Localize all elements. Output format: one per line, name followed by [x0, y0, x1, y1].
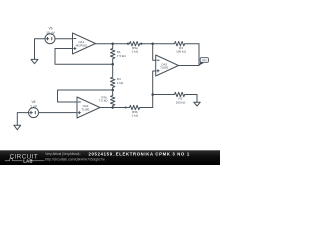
- ground: [14, 125, 21, 129]
- resistor R5a: [113, 42, 153, 46]
- svg-text:MCP601: MCP601: [76, 44, 88, 48]
- label OA2 TL081: [81, 104, 90, 112]
- label V6 1uV: [30, 100, 38, 108]
- op-amp OA1: [73, 33, 96, 54]
- logo waveform: [5, 159, 23, 161]
- svg-text:100 kΩ: 100 kΩ: [176, 50, 186, 54]
- node R5b left terminal: [125, 106, 127, 108]
- svg-text:1 kΩ: 1 kΩ: [132, 114, 139, 118]
- wire OA1 output to node A: [96, 43, 113, 45]
- wire rail down to OA3 inverting input: [153, 44, 156, 61]
- svg-text:TL081: TL081: [160, 66, 169, 70]
- flag Vout: [199, 58, 208, 66]
- label R5a 1k: [132, 46, 139, 54]
- node OA3 noninverting branch: [151, 93, 154, 96]
- node R5a right terminal: [140, 43, 142, 45]
- wire V6 to ground: [17, 113, 28, 126]
- resistor R5b: [113, 105, 153, 109]
- label R7b 7.5k: [99, 95, 109, 102]
- svg-text:1 kΩ: 1 kΩ: [132, 50, 139, 54]
- wire V6 to OA2 noninverting input: [39, 112, 78, 114]
- wire V5 to ground: [35, 39, 46, 60]
- wire R5b up to OA3 noninverting input: [153, 71, 156, 108]
- op-amp OA2: [77, 97, 100, 118]
- resistor R1: [111, 44, 115, 65]
- label R2 100k: [176, 97, 186, 105]
- resistor R4: [111, 64, 115, 90]
- svg-text:http://circuitlab.com/c8k4mv7n: http://circuitlab.com/c8k4mv7n5dq2e7w: [45, 157, 105, 161]
- voltage source V5: [45, 34, 55, 44]
- resistor R7b: [111, 90, 115, 108]
- svg-text:20524159_ELEKTRONIKA CPMK 3 NO: 20524159_ELEKTRONIKA CPMK 3 NO 1: [89, 152, 190, 157]
- wire OA3 output: [179, 65, 200, 67]
- label V5 10uV: [46, 27, 55, 35]
- node OA2 output junction: [111, 106, 114, 109]
- svg-text:LAB: LAB: [23, 158, 32, 163]
- footer bar: [0, 150, 220, 165]
- label OA3 TL081: [160, 62, 169, 69]
- resistor R2: [153, 92, 197, 96]
- voltage source V6: [29, 108, 39, 118]
- logo tail line: [32, 160, 45, 162]
- node A: [111, 42, 114, 45]
- label R4 1k: [117, 77, 124, 85]
- ground: [31, 59, 38, 63]
- wire OA2 output: [100, 107, 113, 109]
- node R5a left terminal: [127, 43, 129, 45]
- svg-text:1 kΩ: 1 kΩ: [117, 81, 124, 85]
- wire OA2 inverting feedback to node C: [58, 90, 113, 102]
- wire OA1 noninverting feedback to node B: [55, 49, 113, 65]
- svg-text:TL081: TL081: [81, 108, 90, 112]
- svg-text:7.5 kΩ: 7.5 kΩ: [99, 99, 109, 103]
- label OA1 MCP601: [76, 40, 88, 47]
- svg-text:Very Afrizal (VeryAfrizal) :: Very Afrizal (VeryAfrizal) :: [45, 152, 81, 156]
- svg-text:10 μV: 10 μV: [46, 31, 55, 35]
- op-amp OA3: [156, 55, 179, 76]
- ground: [194, 102, 201, 106]
- node C: [111, 89, 114, 92]
- label R1 7.5k: [117, 50, 127, 58]
- wire feedback down to output node: [198, 44, 200, 66]
- node B: [111, 63, 114, 66]
- svg-text:7.5 kΩ: 7.5 kΩ: [117, 54, 127, 58]
- wire R2 to ground: [196, 95, 198, 103]
- resistor R3: [153, 42, 199, 46]
- label R3 100k: [176, 46, 186, 54]
- svg-text:Vout: Vout: [202, 59, 207, 62]
- wire V5 to OA1 inverting input: [55, 38, 73, 40]
- node top rail junction: [151, 42, 154, 45]
- label R5b 1k: [132, 110, 139, 118]
- svg-text:100 kΩ: 100 kΩ: [176, 100, 186, 104]
- svg-text:1 μV: 1 μV: [30, 104, 38, 108]
